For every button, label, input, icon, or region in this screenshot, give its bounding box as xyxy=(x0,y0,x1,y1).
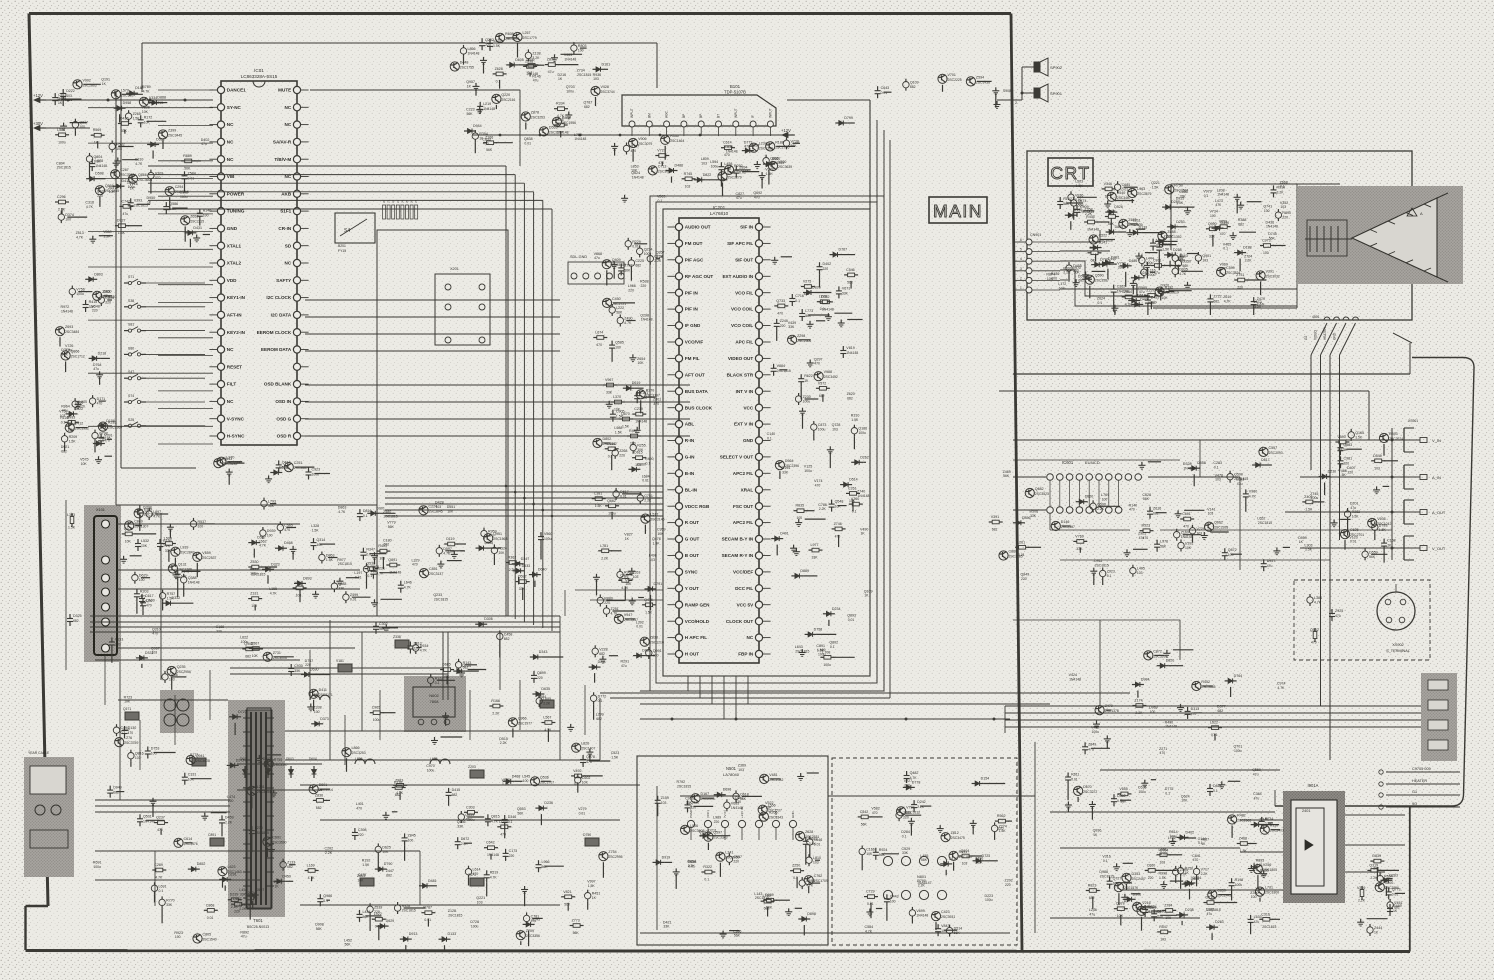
svg-text:V451: V451 xyxy=(1394,901,1402,905)
svg-text:D820: D820 xyxy=(1166,659,1175,663)
svg-text:D486: D486 xyxy=(675,164,684,168)
svg-text:D333: D333 xyxy=(1132,872,1141,876)
svg-text:56K: 56K xyxy=(268,504,275,508)
svg-text:47u: 47u xyxy=(621,664,627,668)
svg-text:V819: V819 xyxy=(846,346,854,350)
svg-text:R635: R635 xyxy=(796,504,805,508)
svg-text:VCC/DEF: VCC/DEF xyxy=(733,570,753,575)
svg-text:KEY2-IN: KEY2-IN xyxy=(227,330,246,335)
svg-text:S74: S74 xyxy=(128,394,134,398)
svg-text:1N4148: 1N4148 xyxy=(487,853,499,857)
svg-text:56K: 56K xyxy=(564,902,571,906)
svg-text:D767: D767 xyxy=(839,248,848,252)
svg-text:682: 682 xyxy=(1078,279,1084,283)
svg-text:L270: L270 xyxy=(255,826,263,830)
svg-text:RESET: RESET xyxy=(227,364,243,369)
svg-text:2.2K: 2.2K xyxy=(1370,876,1378,880)
svg-text:220: 220 xyxy=(228,799,234,803)
svg-text:+12V: +12V xyxy=(781,128,791,133)
svg-text:220: 220 xyxy=(105,301,111,305)
svg-text:GND: GND xyxy=(743,438,754,443)
svg-text:D211: D211 xyxy=(598,660,606,664)
svg-text:1.5K: 1.5K xyxy=(68,526,76,530)
svg-text:470: 470 xyxy=(1311,641,1317,645)
svg-text:47u: 47u xyxy=(531,919,537,923)
svg-text:D161: D161 xyxy=(602,62,611,66)
svg-text:2.2K: 2.2K xyxy=(492,712,500,716)
svg-text:2: 2 xyxy=(1020,276,1022,280)
svg-text:56K: 56K xyxy=(1369,555,1376,559)
svg-text:1.5K: 1.5K xyxy=(1254,305,1262,309)
svg-text:33K: 33K xyxy=(1180,194,1187,198)
svg-text:100: 100 xyxy=(65,218,71,222)
svg-text:NC: NC xyxy=(285,105,292,110)
svg-text:1N4148: 1N4148 xyxy=(564,57,576,61)
svg-text:4.7K: 4.7K xyxy=(1179,272,1187,276)
svg-text:EXT AUDIO IN: EXT AUDIO IN xyxy=(722,274,753,279)
svg-text:Q252: Q252 xyxy=(485,38,494,42)
svg-text:XS901: XS901 xyxy=(1408,419,1418,423)
svg-text:D898: D898 xyxy=(807,912,816,916)
svg-text:10K: 10K xyxy=(1117,914,1124,918)
svg-text:2SC1815: 2SC1815 xyxy=(677,784,691,788)
svg-text:56K: 56K xyxy=(847,280,854,284)
svg-text:2SC3608: 2SC3608 xyxy=(196,759,210,763)
svg-text:0.1: 0.1 xyxy=(1214,465,1219,469)
svg-text:D852: D852 xyxy=(197,862,206,866)
svg-text:100u: 100u xyxy=(180,195,188,199)
svg-text:D629: D629 xyxy=(386,919,395,923)
svg-text:OSD R: OSD R xyxy=(277,434,292,439)
svg-text:103: 103 xyxy=(635,463,641,467)
svg-text:D390: D390 xyxy=(1221,221,1230,225)
svg-text:1N4148: 1N4148 xyxy=(1183,466,1195,470)
svg-text:FSC OUT: FSC OUT xyxy=(733,504,753,509)
svg-text:APC2 FIL: APC2 FIL xyxy=(733,471,754,476)
svg-text:VDCC RGB: VDCC RGB xyxy=(685,504,710,509)
svg-text:D734: D734 xyxy=(462,664,471,668)
svg-text:L532: L532 xyxy=(141,539,149,543)
svg-text:103: 103 xyxy=(135,756,141,760)
svg-text:2SC2457: 2SC2457 xyxy=(1132,877,1146,881)
svg-text:Z203: Z203 xyxy=(468,765,476,769)
svg-text:D188: D188 xyxy=(1243,246,1252,250)
svg-text:Q409: Q409 xyxy=(612,258,621,262)
svg-text:Z653: Z653 xyxy=(190,214,198,218)
svg-text:OSD BLANK: OSD BLANK xyxy=(264,382,292,387)
svg-text:470: 470 xyxy=(835,534,841,538)
svg-text:2SC1815: 2SC1815 xyxy=(402,909,416,913)
svg-text:Z584: Z584 xyxy=(188,171,196,175)
svg-text:2SC1815: 2SC1815 xyxy=(577,73,591,77)
svg-text:0.1: 0.1 xyxy=(1097,301,1102,305)
svg-text:4.7K: 4.7K xyxy=(76,236,84,240)
svg-text:BP: BP xyxy=(682,114,686,118)
svg-text:V699: V699 xyxy=(916,909,924,913)
svg-text:Q234: Q234 xyxy=(644,247,653,251)
svg-text:2.2K: 2.2K xyxy=(163,544,171,548)
svg-text:470: 470 xyxy=(814,362,820,366)
svg-text:33K: 33K xyxy=(812,556,819,560)
svg-text:470: 470 xyxy=(1193,858,1199,862)
svg-text:100u: 100u xyxy=(250,572,258,576)
svg-text:L222: L222 xyxy=(616,306,624,310)
svg-text:L506: L506 xyxy=(690,824,698,828)
svg-text:G1: G1 xyxy=(1412,790,1417,794)
svg-text:AFT OUT: AFT OUT xyxy=(685,372,705,377)
svg-text:2.2K: 2.2K xyxy=(239,907,247,911)
svg-text:1K: 1K xyxy=(1393,909,1398,913)
svg-text:47u: 47u xyxy=(1254,796,1260,800)
svg-text:47u: 47u xyxy=(241,935,247,939)
svg-text:D627: D627 xyxy=(1164,234,1173,238)
svg-text:C251: C251 xyxy=(294,461,303,465)
svg-text:220: 220 xyxy=(1282,216,1288,220)
svg-text:2: 2 xyxy=(1015,101,1017,105)
svg-text:GND: GND xyxy=(1333,332,1337,340)
svg-text:2SC1568: 2SC1568 xyxy=(493,537,507,541)
svg-text:470: 470 xyxy=(140,594,146,598)
svg-text:Q548: Q548 xyxy=(835,500,844,504)
svg-text:R203: R203 xyxy=(140,589,149,593)
svg-text:1K: 1K xyxy=(467,84,472,88)
svg-text:SY-NC: SY-NC xyxy=(227,105,242,110)
svg-text:Q733: Q733 xyxy=(776,299,785,303)
svg-text:D764: D764 xyxy=(1234,674,1243,678)
svg-text:470: 470 xyxy=(356,806,362,810)
svg-text:Z539: Z539 xyxy=(374,905,382,909)
svg-text:47u: 47u xyxy=(1267,564,1273,568)
svg-text:S38: S38 xyxy=(128,299,134,303)
svg-text:D373: D373 xyxy=(320,717,329,721)
svg-text:D712: D712 xyxy=(1206,896,1215,900)
svg-text:C891: C891 xyxy=(208,833,216,837)
svg-text:100u: 100u xyxy=(241,640,249,644)
svg-text:V729: V729 xyxy=(1197,527,1205,531)
svg-text:10K: 10K xyxy=(1181,799,1188,803)
svg-text:D332: D332 xyxy=(172,596,181,600)
svg-text:C557: C557 xyxy=(1269,446,1278,450)
svg-text:R924: R924 xyxy=(879,848,888,852)
svg-text:10K: 10K xyxy=(252,654,259,658)
svg-text:10K: 10K xyxy=(443,675,450,679)
svg-text:Q186: Q186 xyxy=(858,427,867,431)
svg-text:Q131: Q131 xyxy=(178,563,187,567)
svg-text:470: 470 xyxy=(483,142,489,146)
svg-text:103: 103 xyxy=(477,900,483,904)
svg-text:1N4148: 1N4148 xyxy=(574,137,586,141)
svg-text:47u: 47u xyxy=(736,196,742,200)
svg-text:103: 103 xyxy=(116,147,122,151)
svg-text:1.5K: 1.5K xyxy=(653,541,661,545)
svg-text:0.1: 0.1 xyxy=(159,889,164,893)
svg-text:1K: 1K xyxy=(861,532,866,536)
svg-text:C261: C261 xyxy=(848,486,857,490)
svg-text:DCC FIL: DCC FIL xyxy=(735,586,753,591)
svg-text:2.2K: 2.2K xyxy=(500,741,508,745)
svg-text:J1: J1 xyxy=(387,200,391,203)
svg-text:100u: 100u xyxy=(1235,883,1243,887)
svg-text:2SC1815: 2SC1815 xyxy=(434,598,448,602)
svg-text:D672: D672 xyxy=(461,837,470,841)
svg-text:D791: D791 xyxy=(654,582,663,586)
svg-text:G OUT: G OUT xyxy=(685,537,700,542)
svg-text:1.5K: 1.5K xyxy=(493,44,501,48)
svg-text:D239: D239 xyxy=(230,893,239,897)
svg-text:103: 103 xyxy=(633,575,639,579)
svg-text:2SC3587: 2SC3587 xyxy=(1095,279,1109,283)
svg-text:S4: S4 xyxy=(344,228,350,234)
svg-text:VCO/HOLD: VCO/HOLD xyxy=(685,619,710,624)
svg-text:220: 220 xyxy=(115,643,121,647)
svg-text:100u: 100u xyxy=(128,185,136,189)
svg-text:2SC1540: 2SC1540 xyxy=(203,938,217,942)
svg-text:1.5K: 1.5K xyxy=(1352,515,1360,519)
svg-text:Z298: Z298 xyxy=(797,334,805,338)
svg-text:V481: V481 xyxy=(769,773,777,777)
svg-text:C458: C458 xyxy=(504,632,513,636)
svg-text:10K: 10K xyxy=(866,852,873,856)
svg-text:33K: 33K xyxy=(166,903,173,907)
svg-text:2SC1800: 2SC1800 xyxy=(1265,891,1279,895)
svg-text:2SC2956: 2SC2956 xyxy=(177,670,191,674)
svg-text:47u: 47u xyxy=(533,79,539,83)
svg-text:NC: NC xyxy=(227,399,234,404)
svg-text:1.5K: 1.5K xyxy=(1379,528,1387,532)
svg-text:Q165: Q165 xyxy=(1355,431,1364,435)
svg-text:682: 682 xyxy=(504,637,510,641)
svg-text:2.2K: 2.2K xyxy=(1085,212,1093,216)
svg-text:C851: C851 xyxy=(429,567,438,571)
svg-text:1.5K: 1.5K xyxy=(1159,876,1167,880)
svg-text:2SC2360: 2SC2360 xyxy=(108,426,122,430)
svg-text:AUDIO OUT: AUDIO OUT xyxy=(685,225,711,230)
svg-text:2SC3197: 2SC3197 xyxy=(274,763,288,767)
svg-text:C614: C614 xyxy=(184,837,193,841)
svg-text:1.5K: 1.5K xyxy=(622,425,630,429)
svg-text:R354: R354 xyxy=(479,132,488,136)
svg-text:CLOCK OUT: CLOCK OUT xyxy=(726,619,753,624)
svg-text:D802: D802 xyxy=(603,437,612,441)
svg-text:2SC3079: 2SC3079 xyxy=(638,142,652,146)
svg-text:L966: L966 xyxy=(542,860,550,864)
svg-text:Q190: Q190 xyxy=(146,598,155,602)
svg-text:0.01: 0.01 xyxy=(814,842,821,846)
svg-text:100u: 100u xyxy=(711,164,719,168)
svg-text:SP901: SP901 xyxy=(1050,91,1063,96)
svg-text:4.7K: 4.7K xyxy=(624,321,632,325)
svg-text:1N4148: 1N4148 xyxy=(846,351,858,355)
svg-text:103: 103 xyxy=(152,651,158,655)
svg-text:D415: D415 xyxy=(120,117,129,121)
svg-text:V391: V391 xyxy=(991,515,999,519)
svg-text:1.5K: 1.5K xyxy=(1152,186,1160,190)
svg-text:S908: S908 xyxy=(1003,89,1011,93)
svg-text:Z594: Z594 xyxy=(976,75,984,79)
svg-text:R890: R890 xyxy=(1282,211,1291,215)
svg-text:D481: D481 xyxy=(428,879,437,883)
svg-text:1N4148: 1N4148 xyxy=(858,494,870,498)
svg-text:0.1: 0.1 xyxy=(658,199,663,203)
svg-text:0.01: 0.01 xyxy=(688,864,695,868)
svg-text:470: 470 xyxy=(155,176,161,180)
svg-text:SELECT V OUT: SELECT V OUT xyxy=(720,455,754,460)
svg-text:100u: 100u xyxy=(467,818,475,822)
svg-text:0.01: 0.01 xyxy=(424,918,431,922)
svg-text:103: 103 xyxy=(379,557,385,561)
svg-text:RF AGC OUT: RF AGC OUT xyxy=(685,274,714,279)
svg-text:R393: R393 xyxy=(1389,432,1398,436)
svg-text:CN901: CN901 xyxy=(1030,233,1041,237)
svg-text:220: 220 xyxy=(1348,471,1354,475)
svg-text:BT: BT xyxy=(717,114,721,118)
svg-text:L922: L922 xyxy=(374,912,382,916)
svg-text:Q678: Q678 xyxy=(586,755,595,759)
svg-text:NC: NC xyxy=(747,635,754,640)
svg-text:1N4148: 1N4148 xyxy=(95,164,107,168)
svg-text:R198: R198 xyxy=(1235,878,1244,882)
svg-text:2SC1755: 2SC1755 xyxy=(460,66,474,70)
svg-text:Z174: Z174 xyxy=(1134,699,1142,703)
svg-text:L633: L633 xyxy=(1254,915,1262,919)
svg-text:BSC25-N0S13: BSC25-N0S13 xyxy=(247,925,269,929)
svg-text:100: 100 xyxy=(1263,251,1269,255)
svg-text:56K: 56K xyxy=(1143,497,1150,501)
svg-text:R611: R611 xyxy=(1071,773,1079,777)
svg-text:56K: 56K xyxy=(184,166,191,170)
svg-text:H APC FIL: H APC FIL xyxy=(685,635,707,640)
svg-text:2401: 2401 xyxy=(1302,809,1310,813)
svg-text:103: 103 xyxy=(832,427,838,431)
svg-text:220: 220 xyxy=(305,663,311,667)
svg-text:56K: 56K xyxy=(734,934,741,938)
svg-text:N602: N602 xyxy=(429,693,439,698)
svg-text:C168: C168 xyxy=(1387,539,1396,543)
svg-text:V393: V393 xyxy=(134,198,142,202)
svg-text:682: 682 xyxy=(599,652,605,656)
svg-text:1.5K: 1.5K xyxy=(326,558,334,562)
svg-text:D402: D402 xyxy=(823,262,832,266)
svg-text:0.1: 0.1 xyxy=(795,299,800,303)
svg-text:R451: R451 xyxy=(592,892,601,896)
svg-text:D262: D262 xyxy=(860,455,869,459)
svg-text:Z268: Z268 xyxy=(619,449,627,453)
svg-text:SIF APC FIL: SIF APC FIL xyxy=(727,241,753,246)
svg-text:103: 103 xyxy=(251,604,257,608)
svg-text:C166: C166 xyxy=(866,848,875,852)
svg-text:AFT-IN: AFT-IN xyxy=(227,313,242,318)
svg-text:100: 100 xyxy=(175,935,181,939)
svg-text:103: 103 xyxy=(738,768,744,772)
svg-text:GND: GND xyxy=(791,811,795,819)
svg-text:D727: D727 xyxy=(238,710,247,714)
svg-text:C957: C957 xyxy=(733,855,742,859)
svg-text:Z746: Z746 xyxy=(834,522,842,526)
svg-text:EEROM DATA: EEROM DATA xyxy=(261,347,292,352)
svg-text:L517: L517 xyxy=(650,513,658,517)
svg-text:NC: NC xyxy=(227,347,234,352)
svg-text:Q501: Q501 xyxy=(143,814,152,818)
svg-text:Z923: Z923 xyxy=(1107,570,1115,574)
svg-text:682: 682 xyxy=(1394,906,1400,910)
svg-text:D889: D889 xyxy=(800,569,809,573)
svg-text:BP: BP xyxy=(699,114,703,118)
svg-text:R415: R415 xyxy=(89,300,98,304)
svg-text:100u: 100u xyxy=(566,89,574,93)
svg-text:D119: D119 xyxy=(446,537,454,541)
svg-text:2SC3354: 2SC3354 xyxy=(257,790,271,794)
svg-text:10K: 10K xyxy=(141,544,148,548)
svg-text:4.7K: 4.7K xyxy=(1224,299,1232,303)
svg-text:D670: D670 xyxy=(1083,785,1092,789)
svg-text:0.1: 0.1 xyxy=(820,307,825,311)
svg-text:56K: 56K xyxy=(486,148,493,152)
svg-text:470: 470 xyxy=(1220,232,1226,236)
svg-text:C602: C602 xyxy=(582,776,591,780)
svg-text:Z731: Z731 xyxy=(273,651,281,655)
svg-text:B201: B201 xyxy=(338,244,346,248)
svg-text:10K: 10K xyxy=(1047,277,1054,281)
svg-text:C239: C239 xyxy=(634,407,643,411)
svg-text:100u: 100u xyxy=(1138,790,1146,794)
svg-text:Z894: Z894 xyxy=(739,166,747,170)
svg-text:D803: D803 xyxy=(94,272,103,276)
svg-text:100: 100 xyxy=(314,710,320,714)
svg-text:D919: D919 xyxy=(662,855,671,859)
svg-text:D536: D536 xyxy=(279,466,288,470)
svg-text:103: 103 xyxy=(962,862,968,866)
svg-text:220: 220 xyxy=(780,324,786,328)
svg-text:C691: C691 xyxy=(272,836,281,840)
svg-text:D474: D474 xyxy=(1140,297,1149,301)
svg-text:R540: R540 xyxy=(1117,191,1126,195)
svg-text:4.7K: 4.7K xyxy=(490,875,498,879)
svg-text:1.5K: 1.5K xyxy=(1076,184,1084,188)
svg-text:L434: L434 xyxy=(363,910,371,914)
svg-text:D199: D199 xyxy=(1074,208,1083,212)
svg-text:Z925: Z925 xyxy=(1335,609,1343,613)
svg-text:Z628: Z628 xyxy=(805,830,813,834)
svg-text:0.1: 0.1 xyxy=(830,645,835,649)
svg-text:D772: D772 xyxy=(598,694,607,698)
svg-text:A: A xyxy=(1420,211,1423,216)
svg-text:S25: S25 xyxy=(128,418,134,422)
svg-text:R334: R334 xyxy=(556,102,565,106)
svg-text:L866: L866 xyxy=(352,746,360,750)
svg-text:470: 470 xyxy=(777,311,783,315)
svg-text:47u: 47u xyxy=(62,409,68,413)
svg-text:47u: 47u xyxy=(548,70,554,74)
svg-text:2SC3253: 2SC3253 xyxy=(531,116,545,120)
svg-text:XRAL: XRAL xyxy=(741,487,754,492)
svg-text:682: 682 xyxy=(1213,299,1219,303)
svg-text:470: 470 xyxy=(1179,259,1185,263)
svg-text:V717: V717 xyxy=(1201,868,1209,872)
svg-text:L866: L866 xyxy=(468,47,476,51)
svg-text:2.2K: 2.2K xyxy=(1063,271,1071,275)
svg-text:L963: L963 xyxy=(1137,187,1145,191)
svg-text:C599: C599 xyxy=(1226,266,1235,270)
svg-text:C450: C450 xyxy=(612,297,621,301)
svg-text:NC: NC xyxy=(285,122,292,127)
svg-text:D343: D343 xyxy=(539,650,548,654)
svg-text:L588: L588 xyxy=(57,128,65,132)
svg-text:Q966: Q966 xyxy=(518,716,527,720)
svg-text:220: 220 xyxy=(714,820,720,824)
svg-text:FM OUT: FM OUT xyxy=(685,241,703,246)
svg-text:47u: 47u xyxy=(1237,482,1243,486)
svg-text:C930: C930 xyxy=(294,664,303,668)
